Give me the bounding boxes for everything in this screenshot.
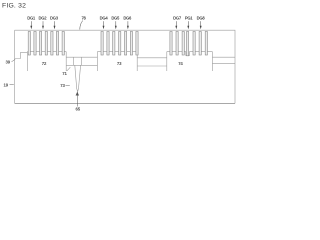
svg-text:PG1: PG1	[185, 16, 193, 21]
svg-text:DG1: DG1	[27, 16, 36, 21]
svg-text:65: 65	[76, 106, 81, 111]
svg-text:19: 19	[4, 82, 9, 87]
svg-text:72: 72	[42, 61, 47, 66]
svg-text:71: 71	[62, 71, 67, 76]
svg-text:DG3: DG3	[50, 16, 59, 21]
svg-text:DG2: DG2	[39, 16, 48, 21]
svg-text:78: 78	[81, 16, 86, 21]
svg-text:73: 73	[117, 61, 122, 66]
svg-text:39: 39	[6, 59, 11, 64]
svg-text:DG6: DG6	[123, 16, 132, 21]
svg-text:DG4: DG4	[100, 16, 109, 21]
svg-text:73: 73	[60, 83, 65, 88]
svg-text:DG7: DG7	[173, 16, 182, 21]
svg-text:DG8: DG8	[197, 16, 206, 21]
svg-text:FIG. 32: FIG. 32	[2, 2, 26, 9]
svg-text:DG5: DG5	[111, 16, 120, 21]
svg-text:74: 74	[178, 61, 183, 66]
